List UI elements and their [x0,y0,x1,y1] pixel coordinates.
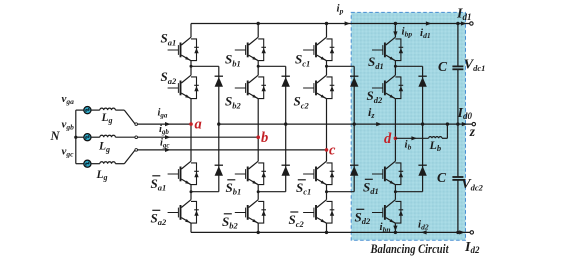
wire clamp tap lower d [395,191,422,193]
junction dots bottom rail [257,231,460,234]
label I_d1 [456,7,471,22]
svg-text:c: c [329,142,336,158]
label i_bp [402,26,413,39]
label Sb1bar [226,180,242,197]
label Sd2 [367,88,383,105]
junction dots leg a clamp taps [190,65,193,193]
wire top dc rail [191,23,470,25]
igbt switch Sd2 [372,75,403,99]
wire clamp column b [285,66,287,191]
current arrow i_d1 top [426,21,432,25]
current arrow i_gb [165,135,171,139]
capacitor C lower [452,177,463,180]
junction dots top rail [257,22,460,25]
label Sa2 [161,69,177,86]
svg-text:z: z [469,124,476,139]
label Lg phase c [96,169,108,182]
clamp diode upper c [350,76,358,87]
label i_bn [380,221,391,234]
igbt switch Sa2 [168,75,199,99]
igbt switch Sa2bar [168,200,199,224]
wire clamp tap lower b [258,191,286,193]
node small circle phase c [135,149,138,152]
terminal Id0 z [462,122,476,126]
label I_d2 [464,240,480,255]
label z [469,124,476,139]
wire bottom dc rail [191,231,470,233]
label Lg phase b [98,141,110,154]
wire right dc bus [457,24,459,233]
wire inductor c to slant [115,150,135,164]
label Sa1 [161,31,177,48]
current arrow i_d2 (leftward) [421,230,427,234]
label Sb2 [225,94,241,111]
igbt switch Sc1 [303,37,334,61]
current arrow i_p [345,21,351,25]
label Sc1 [295,52,310,69]
inductor Lg phase c [100,162,116,164]
label Sa1bar [151,176,167,193]
label b [261,130,268,146]
igbt switch Sa1 [168,37,199,61]
igbt switch Sb2bar [235,200,266,224]
current arrow i_b [411,136,417,140]
clamp diode upper a [215,76,223,87]
capacitor C upper [452,66,463,69]
label V_dc2 [461,177,483,192]
wire clamp column a [218,66,220,191]
igbt switch Sc2 [303,75,334,99]
label i_d2 [418,219,429,232]
label i_b [405,139,412,152]
label Sb1 [225,52,241,69]
label I_d0 [457,106,473,121]
junction dots leg d clamp taps [394,65,397,193]
wire leg b vertical segments [257,24,259,233]
label c [329,142,336,158]
label Sd2bar [355,209,371,226]
svg-text:C: C [437,170,447,185]
junction dots leg c clamp taps [325,65,328,193]
label i_z [368,105,375,120]
igbt switch Sb1 [235,37,266,61]
junction dots z bus [217,122,459,125]
label d [384,131,392,147]
svg-text:C: C [438,59,448,74]
wire clamp column d [422,66,424,191]
svg-text:b: b [261,130,268,146]
current arrow i_gc [165,148,171,152]
svg-text:Balancing Circuit: Balancing Circuit [370,241,449,256]
node a [189,122,193,126]
wire clamp tap upper b [258,65,286,67]
label Sb2bar [222,214,238,231]
wire clamp tap lower c [327,191,355,193]
label V_dc1 [464,58,486,73]
node small circle phase b [135,136,138,139]
current arrow i_bn [393,225,397,232]
clamp diode lower d [418,165,426,176]
clamp diode lower b [282,165,290,176]
label i_gb [159,124,169,136]
wire leg a vertical segments [190,24,192,233]
inductor Lg phase a [100,108,116,110]
svg-text:N: N [50,129,61,143]
wire clamp tap lower a [191,191,219,193]
wire source a to inductor [91,109,100,111]
balancing circuit shaded region [351,12,465,240]
ac source v_gc [76,160,91,167]
label v_gb [62,119,75,132]
wire clamp tap upper c [327,65,355,67]
igbt switch Sc2bar [303,200,334,224]
terminal Id1 [461,21,473,25]
label i_p [337,2,344,15]
label Sc1bar [296,180,311,197]
label Sa2bar [151,210,167,227]
wire z bus [219,123,473,125]
igbt switch Sa1bar [168,161,199,185]
wire phase line b right [137,136,258,138]
svg-text:d: d [384,131,392,147]
wire leg c vertical segments [326,24,328,233]
clamp diode lower c [350,165,358,176]
wire leg d vertical segments [394,24,396,233]
igbt switch Sd1 [372,37,403,61]
igbt switch Sd1bar [372,161,403,185]
label C upper [438,59,448,74]
label Sd1bar [363,179,379,196]
wire clamp tap upper d [395,65,422,67]
ac source v_gb [76,134,91,141]
node c [325,148,329,152]
node N neutral bus wire [75,110,77,164]
current arrow i_z [376,122,382,126]
node small circle phase a [135,123,138,126]
wire d node to inductor [395,137,428,139]
junction dots leg b clamp taps [257,65,260,193]
node d [394,137,398,141]
wire phase line b [115,136,135,138]
clamp diode upper d [418,76,426,87]
wire source b to inductor [91,136,100,138]
node N junction dot [74,136,77,139]
label N [50,129,61,143]
label i_d1 top [420,27,431,40]
label Lg phase a [101,112,113,125]
node b [256,135,260,139]
igbt switch Sd2bar [372,200,403,224]
wire phase line a [137,123,191,125]
wire inductor to z bus riser [442,124,447,138]
clamp diode upper b [282,76,290,87]
label Balancing Circuit [370,241,449,256]
terminal Id2 [459,230,473,234]
label v_ga [62,93,75,106]
wire clamp column c [353,66,355,191]
wire clamp tap upper a [191,65,219,67]
label v_gc [62,146,75,159]
inductor Lb [429,137,442,139]
igbt switch Sb2 [235,75,266,99]
ac source v_ga [76,107,91,114]
igbt switch Sc1bar [303,161,334,185]
wire inductor a to slant [115,110,137,124]
label i_gc [160,138,170,150]
label Sc2bar [289,212,305,229]
label Lb [429,138,442,153]
wire source c to inductor [91,163,100,165]
inductor Lg phase b [100,135,116,137]
wire phase line c [137,149,326,151]
current arrow i_ga [165,122,171,126]
label i_ga [158,108,168,120]
label Sc2 [294,94,310,111]
label a [195,117,202,133]
label C lower [437,170,447,185]
igbt switch Sb1bar [235,161,266,185]
label Sd1 [368,54,384,71]
clamp diode lower a [215,165,223,176]
svg-text:a: a [195,117,202,133]
current arrow i_bp [393,27,397,38]
